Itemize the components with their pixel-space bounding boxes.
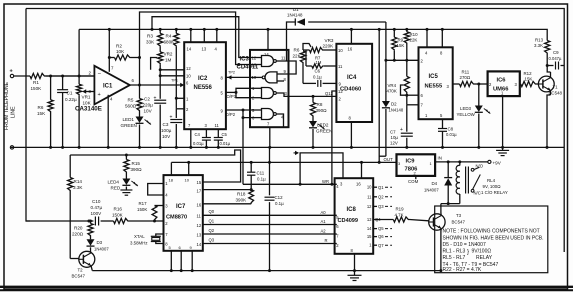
node pin1 junction — [175, 97, 178, 100]
svg-text:D4: D4 — [432, 181, 438, 186]
gate IC3-A — [262, 56, 274, 67]
svg-text:IC5: IC5 — [429, 74, 439, 80]
wire IC7 pin18 supply — [170, 162, 172, 175]
svg-text:10: 10 — [185, 178, 190, 183]
node R8 top — [312, 95, 315, 98]
svg-text:Q3: Q3 — [209, 237, 215, 242]
svg-text:R6: R6 — [294, 48, 300, 53]
gate IC3-C — [262, 88, 274, 99]
svg-text:15: 15 — [197, 180, 202, 185]
svg-text:Q7: Q7 — [378, 243, 384, 248]
wire IC2 pin13 supply — [203, 29, 205, 42]
svg-text:10: 10 — [252, 75, 257, 80]
svg-text:14: 14 — [367, 226, 372, 231]
potentiometer VR4 — [404, 76, 409, 93]
wire IC4 pin8 ground — [350, 122, 352, 147]
svg-text:YELLOW: YELLOW — [457, 112, 476, 117]
svg-text:IC9: IC9 — [406, 159, 416, 165]
node R6 top — [49, 75, 52, 78]
capacitor C9 — [547, 65, 553, 67]
wire IC4 pin16 supply — [350, 29, 352, 43]
svg-text:13: 13 — [197, 232, 202, 237]
svg-text:11: 11 — [215, 123, 220, 128]
svg-text:22K: 22K — [293, 54, 302, 59]
svg-text:14: 14 — [264, 52, 269, 57]
resistor R16 — [114, 218, 130, 223]
wire WR net — [243, 183, 337, 185]
svg-text:RED: RED — [111, 186, 121, 191]
resistor R15 — [125, 155, 127, 160]
LED3 yellow — [478, 84, 480, 106]
resistor R14 — [69, 155, 71, 178]
wire T1 emitter — [550, 90, 552, 95]
node output — [138, 84, 141, 87]
svg-text:C8: C8 — [448, 127, 454, 132]
svg-text:1N4007: 1N4007 — [424, 188, 439, 193]
node LED2 gnd — [312, 146, 315, 149]
wire D2 jog to supply link — [379, 155, 386, 157]
wiper VR3 bracket — [303, 44, 311, 51]
svg-text:C1: C1 — [67, 91, 73, 96]
svg-text:R: R — [325, 238, 328, 243]
op-amp IC1 — [94, 66, 129, 105]
wire D1 to NE555 pin2 node — [385, 22, 387, 60]
wire T2 base — [70, 258, 79, 260]
node R13 C9 — [546, 64, 549, 67]
svg-text:VR4: VR4 — [388, 83, 397, 88]
capacitor C12 — [269, 147, 271, 195]
ground symbol LED4 — [125, 187, 127, 191]
svg-text:C9: C9 — [553, 50, 559, 55]
test point TP2 wire — [226, 76, 250, 78]
svg-text:0.01µ: 0.01µ — [446, 132, 457, 137]
svg-text:15K: 15K — [37, 111, 46, 116]
wire IC2 pin14 supply — [190, 29, 192, 42]
IC9 7806 box — [397, 154, 436, 176]
node LED3 gnd — [477, 146, 480, 149]
diode D1 1N4148 — [294, 18, 296, 25]
wire to IC2 pin 1 — [176, 97, 184, 99]
svg-text:Q1: Q1 — [378, 185, 384, 190]
wire T1 collector — [550, 72, 552, 78]
node LED1 gnd — [138, 146, 141, 149]
svg-text:9V/100Ω: 9V/100Ω — [472, 249, 492, 255]
svg-text:11: 11 — [281, 55, 286, 60]
capacitor C8 0.01 — [442, 119, 444, 128]
wire gate D output — [276, 114, 283, 127]
capacitor C2 — [159, 76, 161, 99]
svg-text:3.58MHz: 3.58MHz — [130, 241, 148, 246]
resistor R19 — [393, 217, 409, 222]
resistor R1 — [30, 73, 46, 78]
node VR1 bottom — [78, 146, 81, 149]
IC5 NE555 box — [419, 47, 453, 119]
node T1 emitter gnd — [546, 146, 549, 149]
svg-text:GREEN: GREEN — [121, 123, 137, 128]
svg-text:R9: R9 — [398, 38, 404, 43]
svg-text:Q2: Q2 — [378, 194, 384, 199]
svg-text:C7: C7 — [390, 130, 396, 135]
diode D2 1N4148 — [385, 60, 387, 101]
wire Y29 left drop to input line — [78, 29, 80, 76]
svg-text:C12: C12 — [275, 195, 284, 200]
svg-text:3.3K: 3.3K — [73, 185, 83, 190]
wire +V top rail — [26, 9, 564, 253]
resistor R9 — [393, 29, 395, 37]
svg-text:R5: R5 — [128, 98, 134, 103]
diode D4 1N4007 — [447, 160, 450, 163]
svg-text:13: 13 — [202, 47, 207, 52]
svg-text:−: − — [98, 72, 102, 78]
svg-text:0.01µ: 0.01µ — [220, 141, 231, 146]
wire pin 7 — [407, 104, 419, 106]
potentiometer VR2 — [158, 52, 163, 65]
potentiometer VR1 — [78, 76, 80, 84]
capacitor C7 — [406, 105, 408, 132]
svg-text:CM8870: CM8870 — [166, 215, 187, 221]
svg-text:Q6: Q6 — [378, 234, 384, 239]
svg-text:14: 14 — [197, 242, 202, 247]
wire node B vertical — [139, 58, 141, 86]
IC7 CM8870 box — [164, 175, 203, 251]
wire left feed vertical to hold circuit — [26, 9, 30, 222]
node pin7 Y29 — [108, 28, 111, 31]
svg-text:R19: R19 — [396, 207, 405, 212]
svg-text:33K: 33K — [146, 40, 155, 45]
svg-text:R10: R10 — [410, 32, 419, 37]
svg-text:+: + — [10, 69, 13, 75]
svg-text:R3: R3 — [147, 34, 153, 39]
node C2 gnd — [159, 146, 162, 149]
svg-text:RL5 - RL7: RL5 - RL7 — [443, 255, 466, 261]
wire D1 net — [287, 22, 296, 61]
svg-text:R20: R20 — [74, 226, 83, 231]
resistor R10 — [406, 29, 408, 31]
svg-text:VR1: VR1 — [82, 95, 91, 100]
node C12 bottom — [268, 269, 271, 272]
wire VR4 to pin 6 — [406, 94, 408, 96]
svg-text:IC2: IC2 — [198, 76, 208, 82]
svg-text:C2: C2 — [144, 97, 150, 102]
svg-text:12V: 12V — [390, 141, 398, 146]
node pin4 gnd — [107, 146, 110, 149]
resistor R8 — [312, 96, 314, 102]
svg-text:BC547: BC547 — [72, 274, 86, 279]
wire pin16 to R18 bottom — [203, 203, 251, 205]
svg-text:XTAL: XTAL — [134, 234, 145, 239]
resistor R7 — [306, 65, 312, 67]
capacitor C6 — [303, 82, 316, 84]
svg-text:VR2: VR2 — [164, 52, 173, 57]
svg-text:SHOWN IN FIG. HAVE BEEN USED I: SHOWN IN FIG. HAVE BEEN USED IN PCB. — [443, 235, 544, 241]
ground symbol near IC6 — [501, 146, 504, 149]
svg-text:COM: COM — [408, 179, 419, 184]
svg-text:R22 - R27 = 4.7K: R22 - R27 = 4.7K — [443, 267, 482, 273]
capacitor C4 — [205, 129, 207, 137]
wire to IC2 pin 2 — [175, 98, 177, 109]
LED2 green — [309, 121, 317, 127]
wire gate C output Q12 net — [276, 93, 336, 96]
svg-text:100µ: 100µ — [161, 128, 172, 133]
resistor R2 — [109, 57, 114, 59]
capacitor C5 — [217, 129, 219, 137]
svg-text:FROM TELEPHONE: FROM TELEPHONE — [4, 81, 10, 130]
svg-text:16: 16 — [348, 47, 353, 52]
wire T2 collector — [90, 252, 93, 253]
wire IC3 pin14 supply — [267, 29, 269, 50]
svg-text:0.1µ: 0.1µ — [257, 177, 266, 182]
resistor R18 — [249, 190, 254, 204]
wire IC3 pin7 ground — [269, 127, 271, 147]
node R2 left — [108, 56, 111, 59]
svg-text:Q5: Q5 — [378, 226, 384, 231]
capacitor C11 — [250, 162, 252, 172]
svg-text:OUT: OUT — [384, 157, 394, 162]
wire IC7 pin10 supply — [188, 162, 190, 175]
svg-text:680K: 680K — [164, 40, 176, 45]
ground symbol main — [354, 271, 356, 276]
svg-text:22K: 22K — [410, 38, 418, 43]
capacitor C1 — [62, 76, 64, 90]
node R4 top — [175, 28, 178, 31]
svg-text:N/O: N/O — [476, 164, 484, 169]
svg-text:Q3: Q3 — [378, 204, 384, 209]
svg-text:IC6: IC6 — [497, 78, 507, 84]
capacitor C10 — [89, 220, 94, 222]
wire +6V rail from regulator — [171, 161, 396, 163]
svg-text:TP2: TP2 — [228, 71, 235, 75]
wire pin2 net — [386, 59, 419, 61]
svg-text:14: 14 — [187, 47, 192, 52]
potentiometer VR3 — [303, 49, 310, 51]
wire IC1 output — [130, 84, 179, 86]
wire IC5 pin4 supply — [426, 29, 428, 47]
svg-text:IC1: IC1 — [103, 84, 113, 90]
svg-text:0.47µ: 0.47µ — [91, 205, 103, 210]
node C1 top — [61, 75, 64, 78]
node C3 gnd — [175, 146, 178, 149]
wire pin17 to R18 — [203, 189, 251, 191]
svg-text:IC3: IC3 — [240, 57, 250, 63]
svg-text:VR3: VR3 — [325, 38, 334, 43]
LED1 green — [136, 117, 144, 123]
svg-text:+9V: +9V — [493, 160, 502, 165]
svg-text:390Ω: 390Ω — [316, 108, 328, 113]
resistor R13 — [545, 41, 550, 55]
transistor T3 BC547 — [429, 214, 445, 230]
wiper VR2 bracket — [151, 58, 158, 70]
svg-text:R2: R2 — [116, 44, 122, 49]
wire IC2 pin4 supply — [216, 29, 218, 42]
diode D3 1N4007 — [87, 239, 95, 245]
wire WR to IC8 pin3 — [300, 153, 343, 184]
svg-text:D1: D1 — [293, 7, 299, 12]
svg-text:12: 12 — [197, 223, 202, 228]
svg-text:11: 11 — [367, 194, 372, 199]
arrow WR test point — [294, 152, 299, 154]
svg-text:18: 18 — [169, 178, 174, 183]
wire IC7 pin9 ground — [191, 251, 193, 271]
svg-text:}: } — [467, 250, 469, 256]
wire input line — [14, 75, 30, 77]
svg-text:10: 10 — [186, 74, 191, 79]
svg-text:N/C: N/C — [474, 191, 481, 196]
crystal XTAL 3.58MHz — [156, 234, 164, 236]
svg-text:C5: C5 — [222, 132, 228, 137]
wire +V rail Y29 — [79, 29, 547, 40]
svg-text:270Ω: 270Ω — [460, 75, 471, 80]
svg-text:220K: 220K — [323, 44, 335, 49]
svg-text:0.1µ: 0.1µ — [313, 75, 322, 80]
transistor T2 BC547 — [79, 251, 95, 267]
svg-text:220µ: 220µ — [143, 103, 154, 108]
terminal +9V — [488, 160, 491, 163]
net O/P1 — [226, 91, 236, 93]
wire O/P2 to WR — [242, 118, 244, 185]
svg-text:12: 12 — [367, 204, 372, 209]
svg-text:12: 12 — [252, 55, 257, 60]
wire gate B input 2 — [277, 80, 284, 82]
bus Q0 A0 — [203, 214, 337, 216]
svg-text:BC547: BC547 — [452, 220, 466, 225]
node R18 top — [250, 188, 253, 191]
wire IC9 input — [435, 161, 488, 163]
svg-text:WR: WR — [322, 179, 329, 184]
resistor R6b 22K — [300, 51, 305, 64]
wire gate A output loop — [276, 60, 288, 62]
wiper VR4 bracket — [401, 85, 407, 95]
svg-text:C4: C4 — [195, 132, 201, 137]
svg-text:D5 - D10 = 1N4007: D5 - D10 = 1N4007 — [443, 242, 486, 248]
svg-text:D3: D3 — [97, 240, 103, 245]
svg-text:15: 15 — [367, 234, 372, 239]
svg-text:12: 12 — [338, 89, 343, 94]
svg-text:T1: T1 — [553, 85, 559, 90]
svg-text:150K: 150K — [137, 207, 147, 212]
wire IC7 pin6 ground — [180, 251, 182, 271]
svg-text:12: 12 — [186, 66, 191, 71]
svg-text:R14: R14 — [74, 179, 83, 184]
svg-text:9V, 100Ω: 9V, 100Ω — [483, 184, 502, 189]
svg-text:C6: C6 — [315, 69, 321, 74]
bus Q3 R — [203, 243, 337, 245]
svg-text:0.1µ: 0.1µ — [275, 201, 284, 206]
svg-text:15K: 15K — [525, 77, 533, 82]
svg-text:390Ω: 390Ω — [131, 167, 143, 172]
svg-text:LED2: LED2 — [317, 123, 329, 128]
svg-text:O/P1: O/P1 — [227, 94, 237, 99]
wire IC6 pin1 ground — [502, 96, 504, 147]
capacitor C3 — [175, 109, 177, 118]
svg-text:1N4148: 1N4148 — [389, 108, 404, 113]
svg-text:NE556: NE556 — [194, 85, 213, 91]
wire pin 4 to ground — [107, 95, 109, 148]
node LED3 junction — [477, 83, 480, 86]
wire ground rail — [11, 146, 565, 148]
resistor R6 — [50, 76, 52, 100]
svg-text:R1: R1 — [33, 80, 39, 85]
svg-text:C3: C3 — [163, 122, 169, 127]
svg-text:R15: R15 — [132, 161, 141, 166]
wire StD net — [70, 150, 240, 182]
node T3 emitter — [439, 269, 442, 272]
IC3 CD4011 box — [250, 50, 289, 127]
svg-text:IC4: IC4 — [347, 75, 357, 81]
svg-text:0.22µ: 0.22µ — [65, 97, 77, 102]
svg-text:RL4: RL4 — [487, 178, 496, 183]
node IC3 pin7 gnd — [268, 146, 271, 149]
node NE555 pin2 net — [384, 59, 387, 62]
terminal + from telephone line — [10, 74, 13, 77]
IC4 CD4060 box — [336, 44, 372, 122]
svg-text:GREEN: GREEN — [316, 129, 332, 134]
svg-text:O/P2: O/P2 — [226, 112, 236, 117]
wiper VR1 to pin 3 — [83, 91, 86, 93]
node pin10 branch — [159, 74, 162, 77]
node pins 12-13 tie — [237, 63, 240, 66]
svg-text:R12: R12 — [524, 71, 533, 76]
note box — [435, 206, 548, 273]
resistor R12 — [521, 81, 537, 86]
resistor R4 — [175, 29, 177, 33]
svg-text:Q2: Q2 — [209, 228, 215, 233]
svg-text:CD4099: CD4099 — [338, 218, 359, 224]
svg-text:R11: R11 — [462, 70, 470, 75]
IC8 CD4099 box — [335, 178, 374, 254]
svg-text:C10: C10 — [92, 199, 101, 204]
wire IC4 pin12 to WR net — [332, 91, 337, 184]
gate IC3-D — [262, 109, 274, 120]
wire Y29 to +6V rail link — [378, 29, 380, 163]
relay RL4 coil — [458, 160, 461, 163]
relay contacts — [471, 168, 474, 171]
wire bottom rail — [92, 270, 441, 272]
bottom rule line — [0, 286, 573, 288]
svg-text:R18: R18 — [237, 192, 246, 197]
svg-text:10K: 10K — [116, 49, 125, 54]
wire to IC7 pin2 — [155, 220, 164, 222]
wire IC2 pin7 ground — [190, 129, 192, 147]
wire IC6 output — [519, 83, 522, 85]
svg-text:7806: 7806 — [405, 167, 419, 173]
svg-text:CA3140E: CA3140E — [75, 106, 102, 113]
node C1 bottom — [61, 146, 64, 149]
svg-text:15K: 15K — [397, 43, 405, 48]
wire pin 2 input — [46, 75, 95, 77]
svg-text:10µ: 10µ — [391, 135, 399, 140]
svg-text:LED1: LED1 — [123, 117, 135, 122]
svg-text:A2: A2 — [321, 229, 327, 234]
svg-text:10: 10 — [367, 185, 372, 190]
svg-text:1 C/O RELAY: 1 C/O RELAY — [481, 190, 508, 195]
svg-text:+: + — [98, 92, 101, 98]
svg-text:470K: 470K — [387, 89, 397, 94]
svg-text:17: 17 — [197, 189, 202, 194]
svg-text:IC8: IC8 — [347, 207, 357, 213]
svg-text:4.7K: 4.7K — [395, 212, 404, 217]
wire IC7 pins 1-4 loop — [148, 184, 164, 196]
node VR2 bottom — [159, 68, 162, 71]
svg-text:CD4060: CD4060 — [340, 87, 361, 93]
bus Q2 A2 — [203, 233, 337, 235]
svg-text:IN: IN — [438, 156, 442, 161]
svg-text:11: 11 — [338, 64, 343, 69]
svg-text:T2: T2 — [78, 268, 84, 273]
wire IC7 pin5 ground — [170, 251, 172, 271]
svg-text:RL1 - RL3: RL1 - RL3 — [443, 249, 466, 255]
wire IC9 pin2 stub — [415, 176, 417, 179]
svg-text:RELAY: RELAY — [476, 255, 493, 261]
